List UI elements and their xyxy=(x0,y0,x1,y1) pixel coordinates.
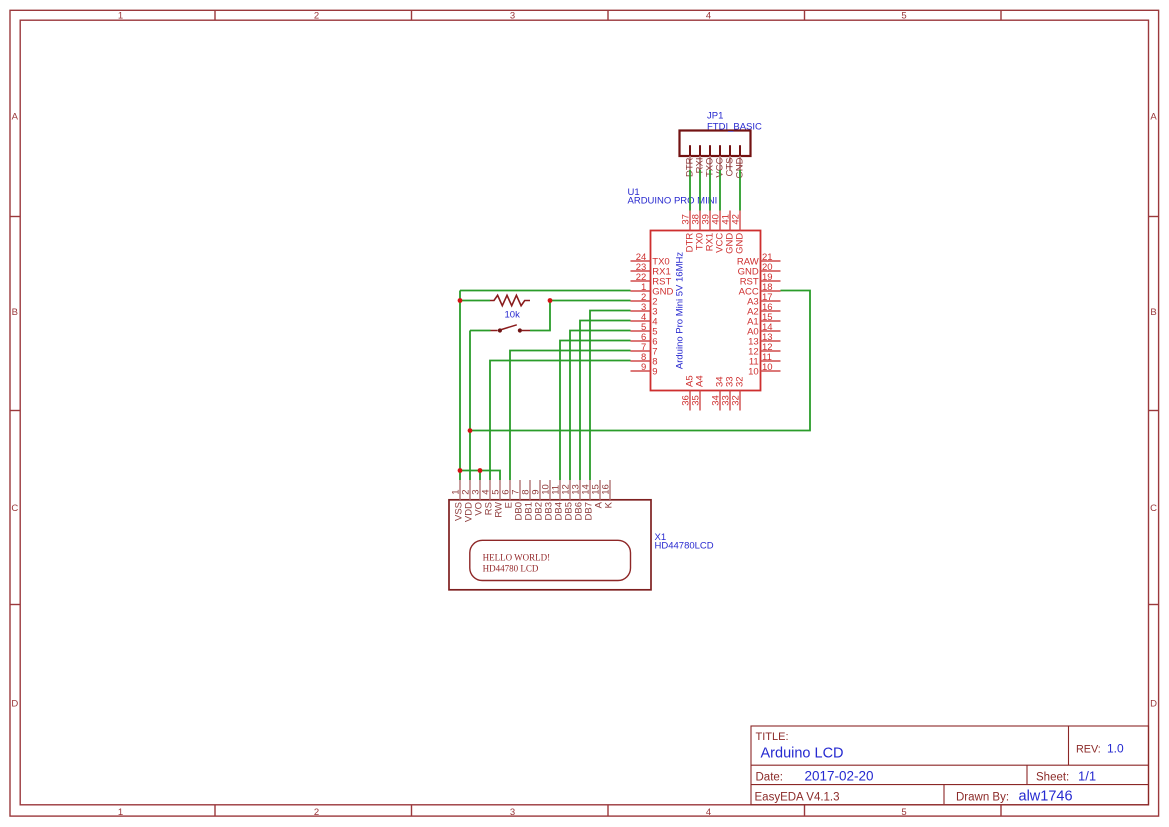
wire resistor right to switch right xyxy=(530,301,550,331)
U1 left pin 3 (3) xyxy=(631,310,651,312)
X1 pin 3 lead xyxy=(479,480,481,500)
U1 right pin 13 (13) xyxy=(761,340,781,342)
JP1 pin 5 stub inside body xyxy=(729,145,731,156)
U1 top pin 40 (VCC) xyxy=(719,211,721,231)
U1 left pin 1 (GND) xyxy=(631,290,651,292)
connector JP1 body xyxy=(680,131,751,157)
svg-text:35: 35 xyxy=(691,395,702,406)
switch terminal dot right xyxy=(518,328,522,332)
wire U1.ACC to long run xyxy=(470,291,810,431)
wire resistor left to GND vertical xyxy=(460,300,490,302)
X1 pin 7 lead xyxy=(519,480,521,500)
U1 left pin 5 (5) xyxy=(631,330,651,332)
wire JP1.DTR to U1.37 xyxy=(689,170,691,211)
wire switch left to vertical x470 xyxy=(470,330,491,332)
svg-text:3: 3 xyxy=(510,807,515,818)
svg-text:REV:: REV: xyxy=(1076,743,1101,755)
junction GND net / VSS tie xyxy=(458,468,463,473)
svg-text:5: 5 xyxy=(901,11,906,22)
svg-text:1.0: 1.0 xyxy=(1107,741,1124,755)
JP1 pin 1 stub inside body xyxy=(689,145,691,156)
U1 top pin 42 (GND) xyxy=(739,211,741,231)
X1 pin 16 lead xyxy=(609,480,611,500)
JP1 pin 2 stub inside body xyxy=(699,145,701,156)
svg-text:16: 16 xyxy=(601,484,612,495)
svg-text:alw1746: alw1746 xyxy=(1019,788,1073,804)
wire JP1.GND to U1.42 xyxy=(739,170,741,211)
X1 pin 10 lead xyxy=(549,480,551,500)
U1 right pin 21 (RAW) xyxy=(761,260,781,262)
svg-text:B: B xyxy=(12,307,18,318)
svg-text:10: 10 xyxy=(762,362,773,373)
X1 pin 9 lead xyxy=(539,480,541,500)
U1 right pin 17 (A3) xyxy=(761,300,781,302)
svg-text:10k: 10k xyxy=(505,310,521,321)
svg-text:GND: GND xyxy=(734,233,745,254)
X1 pin 1 lead xyxy=(459,480,461,500)
svg-text:9: 9 xyxy=(652,366,657,377)
svg-text:A: A xyxy=(1150,111,1157,122)
svg-text:EasyEDA V4.1.3: EasyEDA V4.1.3 xyxy=(755,791,840,803)
wire vertical x470 to X1.VDD xyxy=(469,331,471,481)
U1 right pin 20 (GND) xyxy=(761,270,781,272)
title block xyxy=(751,726,1149,805)
svg-text:5: 5 xyxy=(901,807,906,818)
svg-text:Arduino LCD: Arduino LCD xyxy=(761,745,844,761)
U1 right pin 19 (RST) xyxy=(761,280,781,282)
JP1 pin 4 lead xyxy=(719,156,721,171)
svg-text:9: 9 xyxy=(641,362,646,373)
U1 left pin 8 (8) xyxy=(631,360,651,362)
wire U1.2 to resistor right xyxy=(550,300,631,302)
svg-text:FTDI_BASIC: FTDI_BASIC xyxy=(707,122,762,133)
X1 pin 2 lead xyxy=(469,480,471,500)
X1 pin 11 lead xyxy=(559,480,561,500)
svg-text:32: 32 xyxy=(731,395,742,406)
wire U1.5 to X1.DB5 xyxy=(570,331,631,481)
svg-text:C: C xyxy=(1150,503,1157,514)
wire U1.7 to X1.E xyxy=(510,351,631,481)
X1 pin 8 lead xyxy=(529,480,531,500)
U1 right pin 10 (10) xyxy=(761,370,781,372)
wire U1.4 to X1.DB6 xyxy=(580,321,631,481)
junction resistor right / switch xyxy=(548,298,553,303)
svg-text:ARDUINO PRO MINI: ARDUINO PRO MINI xyxy=(628,196,718,207)
U1 left pin 22 (RST) xyxy=(631,280,651,282)
svg-text:K: K xyxy=(604,501,615,508)
switch right lead xyxy=(522,330,530,332)
U1 bottom pin 35 (A4) xyxy=(699,391,701,411)
svg-text:B: B xyxy=(1150,307,1156,318)
svg-text:TITLE:: TITLE: xyxy=(756,731,789,743)
svg-text:Arduino Pro Mini 5V 16MHz: Arduino Pro Mini 5V 16MHz xyxy=(675,252,686,369)
U1 left pin 23 (RX1) xyxy=(631,270,651,272)
svg-text:C: C xyxy=(11,503,18,514)
U1 top pin 39 (RX1) xyxy=(709,211,711,231)
wire U1.GND pin1 row xyxy=(460,290,631,292)
junction resistor left / GND net xyxy=(458,298,463,303)
svg-text:3: 3 xyxy=(510,11,515,22)
U1 left pin 6 (6) xyxy=(631,340,651,342)
switch left lead xyxy=(491,330,498,332)
svg-text:10: 10 xyxy=(748,366,759,377)
U1 right pin 11 (11) xyxy=(761,360,781,362)
X1 pin 5 lead xyxy=(499,480,501,500)
X1 pin 13 lead xyxy=(579,480,581,500)
svg-text:D: D xyxy=(11,699,18,710)
JP1 pin 5 lead xyxy=(729,156,731,171)
X1 pin 15 lead xyxy=(599,480,601,500)
svg-text:2: 2 xyxy=(314,11,319,22)
U1 right pin 14 (A0) xyxy=(761,330,781,332)
svg-text:1: 1 xyxy=(118,11,123,22)
X1 pin 6 lead xyxy=(509,480,511,500)
U1 left pin 2 (2) xyxy=(631,300,651,302)
U1 top pin 37 (DTR) xyxy=(689,211,691,231)
junction VO tap xyxy=(478,468,483,473)
op-amp/mcu U1 body xyxy=(651,231,761,391)
LCD X1 body xyxy=(449,500,651,590)
wire U1.3 to X1.DB7 xyxy=(590,311,631,481)
svg-text:HD44780 LCD: HD44780 LCD xyxy=(483,563,539,573)
switch lever xyxy=(500,325,517,330)
junction ACC wire / X1.VDD xyxy=(468,428,473,433)
wire X1 VSS-VO-RW tie xyxy=(460,471,500,481)
X1 pin 4 lead xyxy=(489,480,491,500)
wire JP1.VCC to U1.40 xyxy=(719,170,721,211)
svg-text:A: A xyxy=(12,111,19,122)
X1 display window rounded rect xyxy=(470,540,631,580)
JP1 pin 3 lead xyxy=(709,156,711,171)
svg-text:Sheet:: Sheet: xyxy=(1036,771,1069,783)
JP1 pin 1 lead xyxy=(689,156,691,171)
svg-text:Drawn By:: Drawn By: xyxy=(956,791,1009,803)
svg-text:4: 4 xyxy=(706,807,711,818)
svg-text:D: D xyxy=(1150,699,1157,710)
wire JP1.TXO to U1.39 xyxy=(709,170,711,211)
U1 left pin 7 (7) xyxy=(631,350,651,352)
svg-text:HELLO WORLD!: HELLO WORLD! xyxy=(483,552,551,562)
U1 right pin 12 (12) xyxy=(761,350,781,352)
JP1 pin 3 stub inside body xyxy=(709,145,711,156)
U1 top pin 41 (GND) xyxy=(729,211,731,231)
U1 bottom pin 32 (32) xyxy=(739,391,741,411)
JP1 pin 2 lead xyxy=(699,156,701,171)
switch terminal dot left xyxy=(498,328,502,332)
svg-text:1: 1 xyxy=(118,807,123,818)
wire VO stub xyxy=(479,471,481,481)
wire U1.6 to X1.DB4 xyxy=(560,341,631,481)
svg-text:A4: A4 xyxy=(694,375,705,387)
resistor 10k body xyxy=(490,295,530,305)
JP1 pin 6 lead xyxy=(739,156,741,171)
svg-text:32: 32 xyxy=(734,376,745,387)
wire GND net vertical to X1.VSS xyxy=(459,291,461,481)
svg-text:2017-02-20: 2017-02-20 xyxy=(805,768,874,783)
svg-text:JP1: JP1 xyxy=(707,110,723,121)
wire U1.8 to X1.RS xyxy=(490,361,631,481)
U1 left pin 24 (TX0) xyxy=(631,260,651,262)
U1 bottom pin 34 (34) xyxy=(719,391,721,411)
svg-text:Date:: Date: xyxy=(756,771,784,783)
U1 top pin 38 (TX0) xyxy=(699,211,701,231)
svg-text:4: 4 xyxy=(706,11,711,22)
U1 right pin 16 (A2) xyxy=(761,310,781,312)
svg-text:42: 42 xyxy=(731,214,742,225)
svg-text:HD44780LCD: HD44780LCD xyxy=(655,540,714,551)
U1 right pin 18 (ACC) xyxy=(761,290,781,292)
U1 bottom pin 36 (A5) xyxy=(689,391,691,411)
U1 right pin 15 (A1) xyxy=(761,320,781,322)
U1 left pin 9 (9) xyxy=(631,370,651,372)
X1 pin 12 lead xyxy=(569,480,571,500)
wire JP1.RXI to U1.38 xyxy=(699,170,701,211)
U1 bottom pin 33 (33) xyxy=(729,391,731,411)
JP1 pin 4 stub inside body xyxy=(719,145,721,156)
svg-text:1/1: 1/1 xyxy=(1078,768,1096,783)
svg-text:2: 2 xyxy=(314,807,319,818)
JP1 pin 6 stub inside body xyxy=(739,145,741,156)
U1 left pin 4 (4) xyxy=(631,320,651,322)
X1 pin 14 lead xyxy=(589,480,591,500)
